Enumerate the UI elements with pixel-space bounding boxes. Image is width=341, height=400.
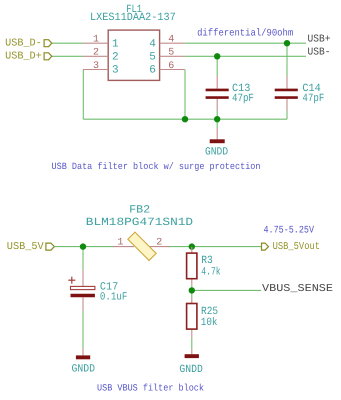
resistor R25 [187, 298, 219, 330]
svg-text:2: 2 [156, 237, 162, 248]
svg-text:USB-: USB- [308, 47, 331, 59]
wire C13 top to USB- [216, 56, 218, 76]
svg-text:1: 1 [93, 35, 99, 46]
svg-text:USB VBUS filter block: USB VBUS filter block [97, 383, 204, 394]
svg-text:5: 5 [149, 52, 156, 64]
svg-text:USB_D-: USB_D- [5, 37, 42, 49]
svg-text:2: 2 [93, 48, 99, 59]
svg-text:10k: 10k [201, 317, 218, 329]
capacitor C13 [206, 76, 254, 111]
junction VBUS_SENSE tap [189, 287, 195, 293]
wire VBUS_SENSE [192, 289, 261, 291]
svg-text:GNDD: GNDD [205, 147, 228, 159]
pin 2 of FL1 [83, 48, 119, 64]
svg-text:VBUS_SENSE: VBUS_SENSE [262, 283, 333, 295]
svg-text:4: 4 [149, 38, 156, 50]
wire FB2 pin 2 to USB_5Vout [168, 246, 262, 248]
svg-text:1: 1 [117, 237, 123, 248]
resistor R3 [187, 247, 221, 279]
svg-text:FB2: FB2 [129, 205, 150, 217]
ground rail wire [83, 118, 287, 120]
wire C17 branch down [82, 247, 84, 270]
svg-text:USB_D+: USB_D+ [5, 51, 42, 63]
power symbol GNDD top block [205, 128, 228, 159]
svg-text:47pF: 47pF [232, 93, 254, 105]
pin 5 of FL1 [149, 48, 184, 64]
svg-text:3: 3 [112, 65, 119, 77]
component FL1 body [108, 30, 159, 80]
wire pin 3 down to ground rail [82, 70, 84, 120]
junction main wire at R3 [189, 243, 195, 249]
svg-text:BLM18PG471SN1D: BLM18PG471SN1D [86, 217, 194, 229]
svg-text:GNDD: GNDD [72, 364, 96, 376]
svg-text:47pF: 47pF [302, 93, 324, 105]
svg-text:0.1uF: 0.1uF [100, 292, 128, 304]
pin 1 of FL1 [83, 35, 119, 51]
hierarchical label USB_5Vout [262, 241, 321, 253]
wire USB_D+ to pin 2 [52, 55, 83, 57]
svg-text:4.7k: 4.7k [201, 266, 221, 278]
svg-text:6: 6 [168, 61, 174, 72]
hierarchical label USB_D- [5, 37, 52, 49]
svg-text:5: 5 [168, 48, 174, 59]
power symbol GNDD under R25 [179, 349, 203, 376]
junction on rail at pin6 drop [182, 116, 188, 122]
junction on USB+ wire at C14 [284, 40, 290, 46]
pin 3 of FL1 [83, 61, 119, 77]
svg-text:GNDD: GNDD [179, 364, 203, 376]
wire R3 bottom to VBUS junction [191, 285, 193, 298]
junction main wire at C17 [80, 243, 86, 249]
svg-text:1: 1 [112, 38, 119, 50]
svg-text:USB+: USB+ [308, 34, 331, 46]
wire R25 bottom to GNDD [191, 338, 193, 349]
junction on USB- wire at C13 [214, 53, 220, 59]
pin 4 of FL1 [149, 35, 184, 51]
svg-text:USB_5V: USB_5V [7, 241, 45, 253]
wire pin 5 to USB- [185, 55, 306, 57]
wire USB_5V to FB2 pin 1 [54, 246, 114, 248]
wire C14 top to USB+ [286, 43, 288, 76]
svg-text:R3: R3 [201, 255, 213, 267]
junction on rail at GNDD [214, 116, 220, 122]
svg-text:3: 3 [93, 61, 99, 72]
svg-text:4.75-5.25V: 4.75-5.25V [264, 226, 315, 237]
wire GNDD stem top block [216, 119, 218, 128]
wire USB_D- to pin 1 [52, 42, 83, 44]
hierarchical label USB_5V [7, 241, 55, 253]
svg-text:USB_5Vout: USB_5Vout [273, 241, 320, 253]
svg-text:4: 4 [168, 35, 174, 46]
capacitor C14 [275, 76, 325, 111]
svg-text:6: 6 [149, 65, 156, 77]
hierarchical label USB_D+ [5, 51, 52, 63]
svg-text:differential/90ohm: differential/90ohm [197, 27, 293, 39]
wire C13 bottom to rail [216, 111, 218, 119]
pin R3 bottom [191, 279, 193, 285]
wire pin 4 to USB+ [185, 42, 306, 44]
svg-text:2: 2 [112, 52, 119, 64]
wire C17 bottom to GNDD [82, 311, 84, 349]
pin R25 bottom [191, 329, 193, 338]
pin 6 of FL1 [149, 61, 184, 77]
wire pin 6 down to ground rail [184, 70, 186, 120]
ferrite bead FB2 [113, 232, 170, 260]
capacitor C17 polarized [68, 270, 127, 311]
svg-text:LXES11DAA2-137: LXES11DAA2-137 [90, 12, 176, 24]
power symbol GNDD under C17 [72, 349, 96, 376]
svg-text:USB Data filter block w/ surge: USB Data filter block w/ surge protectio… [52, 161, 261, 172]
wire C14 bottom to rail [286, 111, 288, 119]
